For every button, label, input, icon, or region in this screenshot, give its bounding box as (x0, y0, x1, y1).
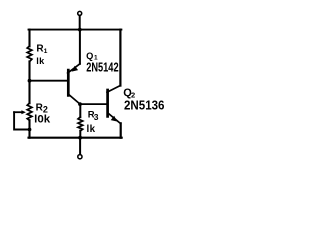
svg-text:lk: lk (36, 56, 45, 66)
svg-text:3: 3 (94, 112, 99, 122)
svg-text:2N5136: 2N5136 (124, 99, 165, 113)
svg-text:l0k: l0k (34, 114, 51, 126)
svg-text:1: 1 (44, 48, 48, 55)
svg-text:lk: lk (87, 124, 96, 135)
svg-text:2N5142: 2N5142 (86, 60, 118, 75)
